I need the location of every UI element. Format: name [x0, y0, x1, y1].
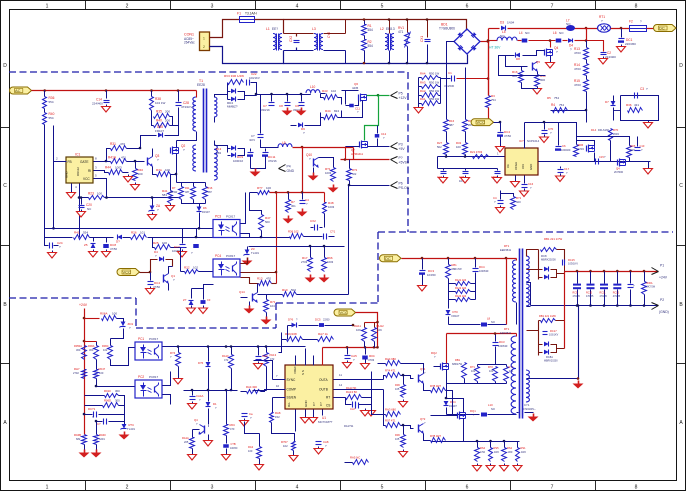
ground CM	[497, 176, 499, 178]
svg-text:R22: R22	[184, 266, 190, 270]
wire top rail right	[577, 137, 630, 146]
wire rq1 source	[431, 419, 464, 442]
svg-text:554: 554	[368, 44, 374, 48]
svg-text:1R1W: 1R1W	[170, 190, 178, 194]
svg-text:104: 104	[270, 304, 275, 308]
svg-text:RA-: RA-	[287, 402, 291, 407]
svg-text:RA3 680: RA3 680	[385, 408, 396, 412]
wire R48 down	[324, 214, 326, 228]
transformer RT1 primary winding	[511, 336, 516, 414]
svg-text:471: 471	[121, 156, 126, 160]
svg-text:472: 472	[270, 357, 275, 361]
capacitor DC1	[621, 29, 623, 38]
wire ZD1 down	[111, 329, 124, 339]
ground R71	[266, 313, 268, 317]
svg-text:301: 301	[291, 204, 296, 208]
svg-text:D6: D6	[203, 206, 207, 210]
ground CY1	[533, 414, 535, 417]
svg-text:10/450: 10/450	[427, 273, 436, 277]
svg-text:R25: R25	[153, 241, 159, 245]
common-mode choke L1	[273, 34, 276, 50]
ground C20	[81, 210, 83, 212]
varistor RV1	[407, 20, 409, 33]
svg-text:4: 4	[296, 485, 299, 491]
svg-text:L6: L6	[553, 31, 557, 35]
wire pc4 to x276	[241, 272, 277, 274]
ground R64	[178, 367, 180, 377]
diode D06v	[208, 347, 210, 362]
resistor R050A 300	[84, 339, 86, 346]
capacitor C1 474/630	[441, 78, 451, 80]
svg-text:3: 3	[211, 485, 214, 491]
resistor R4 754	[551, 110, 587, 112]
svg-text:RS2: RS2	[507, 446, 513, 450]
svg-text:8: 8	[635, 4, 638, 10]
transformer RT1 core	[519, 249, 521, 419]
svg-text:R047: R047	[99, 367, 106, 371]
svg-text:L3: L3	[312, 27, 316, 31]
svg-text:2N7000: 2N7000	[614, 170, 624, 174]
svg-text:GATE: GATE	[80, 160, 88, 164]
dual schottky upper	[538, 250, 540, 280]
svg-text:R06: R06	[395, 433, 400, 437]
capacitor Ca	[244, 392, 246, 413]
svg-text:R?4 471: R?4 471	[385, 369, 396, 373]
ground C4b	[500, 206, 502, 208]
isolation boundary dashed y303	[276, 302, 378, 304]
wire d06 down	[208, 369, 210, 391]
wire upper prim bot	[516, 303, 518, 325]
svg-text:PC817: PC817	[149, 337, 159, 341]
wire sense rail	[464, 441, 520, 443]
net label DC flag2	[380, 255, 402, 262]
svg-text:C8: C8	[279, 104, 283, 108]
svg-text:502: 502	[291, 288, 296, 292]
svg-text:105: 105	[395, 437, 400, 441]
capacitor C20	[81, 198, 83, 205]
pin GATE wire	[94, 161, 107, 163]
svg-text:100: 100	[99, 371, 104, 375]
svg-text:554: 554	[49, 116, 54, 120]
resistor R11 487	[177, 182, 206, 184]
svg-text:68R17W: 68R17W	[452, 362, 463, 366]
ground DC1	[621, 45, 623, 47]
svg-text:IC?: IC?	[519, 139, 524, 143]
svg-text:RA4: RA4	[420, 72, 426, 76]
ground snubber	[648, 121, 650, 123]
svg-text:103/630: 103/630	[498, 344, 508, 348]
svg-text:R?8 4R7: R?8 4R7	[430, 434, 441, 438]
svg-text:470/35: 470/35	[586, 295, 594, 298]
svg-text:RA1A: RA1A	[182, 436, 189, 440]
svg-text:100: 100	[112, 312, 117, 316]
wire top rail through L7	[567, 28, 598, 30]
wire VCC to node	[140, 272, 151, 274]
wire left col x53	[53, 126, 55, 162]
resistor R13	[586, 41, 588, 48]
resistor R53 101	[504, 367, 509, 382]
resistor R121 104	[456, 282, 471, 286]
wire aux net	[256, 83, 258, 96]
svg-text:R40: R40	[156, 119, 162, 123]
svg-text:RA3: RA3	[248, 445, 254, 449]
wire L3 to filter row	[324, 33, 346, 35]
ground R040	[96, 445, 98, 450]
wire RA stack right	[440, 78, 442, 104]
frame column tick 4	[340, 1, 342, 10]
ground RH07	[293, 451, 295, 454]
resistor RA4 R50 1W	[419, 77, 422, 79]
svg-text:2K7/1W: 2K7/1W	[647, 286, 656, 289]
svg-text:C17: C17	[564, 167, 570, 171]
svg-text:MBRX20200: MBRX20200	[544, 360, 558, 363]
wire ra10 down	[231, 369, 233, 391]
frame column tick 7	[595, 1, 597, 10]
ground R04	[365, 360, 367, 362]
svg-text:COMP: COMP	[287, 388, 297, 392]
connector P3 +5V	[391, 143, 398, 147]
svg-text:152: 152	[275, 415, 280, 419]
wire Q6 gate net	[342, 90, 359, 92]
svg-text:R5: R5	[547, 96, 551, 100]
transformer T1 aux winding	[214, 97, 217, 117]
svg-text:1N04: 1N04	[507, 21, 515, 25]
transformer T1 secondary winding lower	[193, 145, 196, 171]
svg-text:NCP1014: NCP1014	[527, 139, 540, 143]
ground R40c	[135, 183, 137, 185]
svg-text:CY1: CY1	[524, 403, 530, 407]
ground Q10	[313, 168, 315, 173]
resistor R17b 205	[465, 68, 467, 120]
svg-text:C12: C12	[381, 132, 387, 136]
svg-text:1: 1	[46, 485, 49, 491]
svg-text:L1: L1	[266, 27, 270, 31]
wire CX2 to L3	[297, 34, 314, 37]
svg-text:7: 7	[551, 485, 554, 491]
resistor R47 500	[259, 215, 264, 231]
wire rail left drop	[437, 157, 439, 169]
resistor R04B 682	[82, 435, 87, 445]
resistor RA3 R50 1W	[419, 86, 422, 88]
svg-text:RA1: RA1	[420, 97, 426, 101]
svg-text:R36: R36	[626, 103, 632, 107]
wire bridge minus drop	[447, 42, 455, 120]
wire snub box bottom	[465, 383, 507, 385]
svg-text:487: 487	[449, 123, 454, 127]
resistor R36c 102	[290, 234, 304, 239]
svg-text:NO: NO	[491, 320, 495, 324]
wire sec center	[527, 283, 531, 306]
ground Ca	[244, 419, 246, 421]
svg-text:R040: R040	[99, 433, 106, 437]
connector P2 GND	[652, 303, 659, 306]
svg-text:RA13 5K: RA13 5K	[346, 386, 357, 390]
wire bead to hv	[488, 324, 507, 326]
capacitor C28	[178, 91, 180, 102]
wire r11 r16 join	[182, 200, 206, 204]
svg-text:502: 502	[352, 172, 357, 176]
svg-text:100: 100	[165, 168, 170, 172]
wire RA6 left	[282, 339, 287, 341]
opto PC1	[135, 342, 162, 360]
capacitor DC11	[265, 149, 267, 152]
capacitor DC4 47/50	[498, 132, 504, 134]
svg-text:R10: R10	[282, 288, 288, 292]
inductor L10	[310, 94, 312, 95]
svg-text:R36 102: R36 102	[288, 230, 299, 234]
diode D16	[117, 235, 122, 240]
wire HV bus down	[488, 42, 490, 96]
svg-text:4703: 4703	[574, 67, 581, 71]
ground aux	[578, 381, 580, 384]
resistor R10 502	[283, 292, 297, 297]
resistor RA8 152	[270, 413, 274, 423]
wire ra3c link	[245, 422, 260, 434]
svg-text:R?2: R?2	[352, 168, 358, 172]
svg-text:68R17W: 68R17W	[452, 267, 463, 271]
svg-text:102: 102	[193, 266, 198, 270]
svg-text:2: 2	[126, 4, 129, 10]
svg-text:1003: 1003	[328, 205, 335, 209]
transistor Q3	[147, 158, 149, 166]
resistor R35 200	[151, 111, 153, 117]
svg-text:264Vac: 264Vac	[184, 40, 195, 44]
svg-text:431: 431	[634, 103, 639, 107]
svg-text:R41: R41	[74, 231, 80, 235]
svg-text:472/400V~: 472/400V~	[523, 407, 536, 411]
svg-text:2003: 2003	[613, 132, 619, 136]
wire q7 net	[594, 153, 596, 162]
svg-text:100/400: 100/400	[561, 148, 571, 152]
isolation boundary dashed line top	[9, 71, 408, 73]
svg-text:754: 754	[554, 96, 559, 100]
frame row tick	[1, 363, 10, 365]
red fb vertical x276	[276, 193, 278, 284]
wire lower winding to rb1	[527, 330, 539, 332]
resistor RH07	[292, 442, 296, 451]
svg-text:RC15: RC15	[568, 258, 575, 262]
resistor R17 2703	[310, 247, 312, 258]
ground C17	[560, 174, 562, 177]
wire red to 5vsb	[293, 147, 354, 149]
op IC1 controller	[66, 157, 93, 183]
snubber box right	[621, 96, 659, 121]
svg-text:C11: C11	[355, 107, 360, 111]
diode RD4b FR107	[444, 401, 449, 406]
resistor R13b 470	[241, 278, 259, 284]
svg-text:101: 101	[489, 369, 494, 373]
svg-text:R04B: R04B	[74, 433, 81, 437]
U1 bottom stubs	[295, 410, 297, 432]
wire caps rail y168	[438, 168, 498, 170]
capacitor RC3	[495, 334, 497, 342]
svg-text:R121 104: R121 104	[455, 278, 467, 282]
wire R1 top stub	[363, 18, 366, 21]
svg-text:420: 420	[516, 200, 521, 204]
svg-text:470/16: 470/16	[268, 159, 277, 163]
wire gnd drop	[578, 306, 580, 379]
capacitor C10 100/1KV	[246, 80, 248, 86]
svg-text:+5VSB: +5VSB	[399, 160, 410, 164]
wire top AC rail y19	[284, 20, 467, 31]
capacitor C16c	[630, 272, 632, 284]
svg-text:101: 101	[140, 231, 145, 235]
wire bead to xfmr	[488, 414, 517, 416]
resistor R52 101	[495, 347, 497, 365]
svg-text:IC1: IC1	[75, 153, 80, 157]
svg-text:3: 3	[211, 4, 214, 10]
wire rb8 right	[446, 391, 453, 416]
wire R40 down to ic area	[44, 125, 46, 229]
wire y324 to bead	[449, 324, 481, 326]
svg-text:RA6/168: RA6/168	[285, 332, 297, 336]
capacitor RC15	[562, 260, 564, 266]
resistor RB2 68R	[464, 334, 466, 361]
resistor R26 101	[131, 235, 147, 240]
transformer T1 primary winding	[196, 91, 198, 98]
svg-text:CX1: CX1	[420, 36, 424, 42]
svg-text:1R0: 1R0	[508, 450, 513, 454]
svg-text:RC8A: RC8A	[546, 355, 553, 359]
svg-text:7: 7	[551, 4, 554, 10]
resistor R2	[364, 36, 366, 40]
wire VCC flag down	[356, 313, 378, 348]
capacitor CA3	[258, 347, 260, 356]
isolation boundary dashed vertical x276	[275, 303, 277, 328]
svg-text:Q5: Q5	[536, 60, 540, 64]
svg-text:DB3: DB3	[216, 151, 222, 155]
svg-text:554: 554	[83, 231, 88, 235]
resistor R25 100	[153, 238, 155, 248]
svg-text:487: 487	[185, 190, 190, 194]
ground CA4A	[192, 402, 194, 404]
svg-text:RA4 300: RA4 300	[246, 385, 257, 389]
ground DC4	[500, 137, 502, 145]
wire aux bottom	[527, 378, 579, 380]
svg-text:6201: 6201	[99, 437, 105, 441]
capacitor C16b	[524, 176, 526, 184]
wire RT net	[362, 398, 372, 405]
ground RA stack	[418, 106, 420, 108]
capacitor C26 1KV	[260, 95, 262, 134]
isolation boundary dashed line y232	[378, 231, 673, 233]
svg-text:D14: D14	[591, 128, 597, 132]
resistor R08 4R7	[431, 438, 446, 443]
ground RA3c	[259, 459, 261, 463]
svg-text:TL431: TL431	[127, 427, 135, 431]
svg-text:EE8.3: EE8.3	[386, 27, 395, 31]
ground R44	[128, 175, 130, 177]
wire PC2 right	[163, 372, 171, 386]
resistor R16	[519, 71, 524, 83]
ground DC4b	[150, 287, 152, 289]
svg-text:GND: GND	[529, 164, 533, 170]
capacitor C6A	[443, 169, 445, 171]
frame column tick 1	[85, 1, 87, 10]
resistor R21 4703	[473, 155, 489, 159]
svg-text:R050A: R050A	[74, 344, 82, 348]
svg-text:554: 554	[368, 28, 374, 32]
transistor QG1	[418, 375, 420, 383]
svg-text:PC1: PC1	[138, 337, 144, 341]
frame column tick 2	[170, 1, 172, 10]
controller U1	[285, 365, 333, 409]
svg-text:R50 1W: R50 1W	[429, 72, 439, 76]
svg-text:HT 36V: HT 36V	[489, 46, 501, 50]
svg-text:4435: 4435	[352, 86, 359, 90]
svg-text:C?: C?	[312, 402, 316, 406]
wire +24 rail	[564, 272, 566, 274]
resistor R06A 100	[102, 316, 117, 321]
wire outb to r07	[384, 390, 386, 426]
svg-text:1: 1	[203, 37, 205, 41]
svg-text:L4: L4	[519, 31, 523, 35]
capacitor RC11 470/35	[604, 272, 606, 284]
svg-text:EER3541: EER3541	[500, 331, 512, 335]
cap DC7 100/50	[182, 229, 184, 244]
wire snubber to drain	[177, 126, 179, 136]
svg-text:P2: P2	[660, 298, 664, 302]
svg-text:4703: 4703	[578, 147, 584, 151]
wire Q4 gate rail	[499, 56, 546, 76]
svg-text:470: 470	[266, 277, 271, 281]
ground U1 b	[313, 416, 315, 418]
wire rail y228	[45, 228, 214, 230]
frame column tick 3	[255, 1, 257, 10]
svg-text:RB1 221 1/7W: RB1 221 1/7W	[544, 237, 563, 241]
svg-text:R07 471: R07 471	[385, 419, 396, 423]
svg-text:DC5: DC5	[315, 318, 321, 322]
wire OUTB	[334, 389, 384, 391]
svg-text:R06: R06	[395, 383, 400, 387]
wire fb rail red	[270, 192, 325, 194]
svg-text:200: 200	[165, 119, 170, 123]
capacitor RC01	[93, 412, 95, 418]
ground DC3	[422, 275, 424, 284]
resistor R40 554	[44, 109, 46, 113]
ground Q4a	[550, 56, 552, 61]
svg-text:6: 6	[466, 4, 469, 10]
ground right	[648, 162, 650, 167]
wire CON1 pin1 to fuse F1	[210, 20, 240, 38]
svg-text:R23: R23	[88, 192, 94, 196]
svg-text:C: C	[679, 183, 683, 189]
diode D8	[523, 51, 545, 56]
svg-text:R06A: R06A	[100, 312, 108, 316]
capacitor C3	[634, 93, 636, 99]
svg-text:NO: NO	[491, 407, 495, 411]
svg-text:D8: D8	[516, 57, 520, 61]
svg-text:RB1 221 1/2W: RB1 221 1/2W	[539, 314, 556, 318]
wire +24V branch	[83, 317, 86, 320]
svg-text:VCC: VCC	[83, 177, 90, 181]
svg-text:+12V: +12V	[399, 96, 408, 100]
svg-text:300: 300	[115, 389, 120, 393]
svg-text:R16: R16	[208, 186, 213, 190]
svg-text:224/400: 224/400	[92, 102, 103, 106]
resistor R27 502	[446, 132, 448, 143]
capacitor C10b	[637, 146, 639, 147]
wire RA8 down	[272, 423, 295, 442]
svg-text:NO: NO	[566, 22, 571, 26]
ground Q14	[249, 302, 251, 306]
snubber RB0 res	[527, 250, 539, 257]
wire OUTA	[334, 379, 384, 381]
svg-text:2: 2	[203, 45, 205, 49]
frame row tick	[1, 127, 10, 129]
wire red drop to lower diodes	[564, 272, 566, 349]
svg-text:V01: V01	[521, 164, 525, 169]
